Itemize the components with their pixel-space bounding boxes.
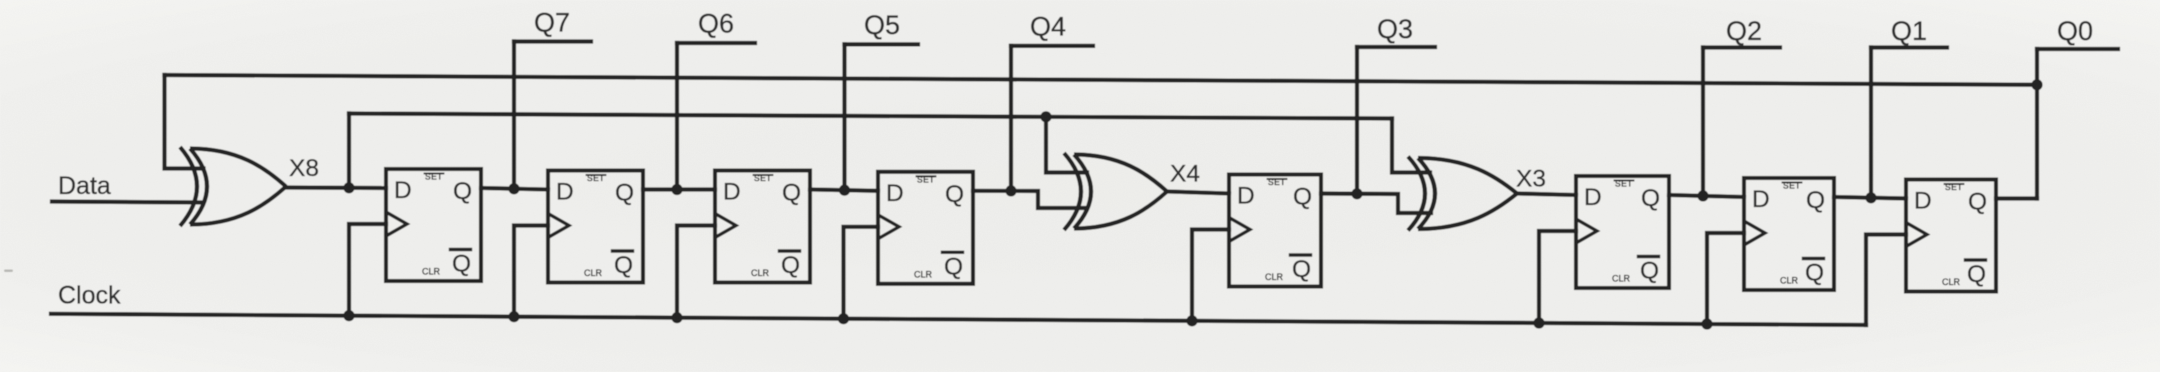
D flip-flop FF6 (Q2 stage)	[1576, 176, 1669, 288]
wire X8 output to FF1 D	[286, 185, 386, 190]
node Q6 tap junction	[671, 184, 682, 195]
net label Q1	[1891, 16, 1927, 46]
net label Q2	[1726, 16, 1762, 46]
wire Q6 output stub	[677, 41, 755, 45]
wire Q2 output stub	[1703, 45, 1780, 49]
label X3	[1516, 166, 1546, 193]
D flip-flop FF8 (Q0 stage)	[1906, 180, 1996, 292]
wire FF5 Q to X3 lower input	[1321, 194, 1431, 214]
wire clock feed to FF6 (Q2 stage)	[1539, 231, 1576, 323]
node Q5 tap junction	[839, 185, 850, 196]
D flip-flop FF3 (Q5 stage)	[715, 171, 810, 283]
wire Q0 output stub	[2037, 47, 2118, 51]
wire Q4 tap riser	[1009, 46, 1013, 191]
wire Data input	[52, 202, 203, 203]
xor gate X3	[1408, 157, 1517, 231]
wire Q2 tap riser	[1701, 48, 1705, 196]
node clock rail junction x=843.5	[838, 313, 849, 324]
node clock rail junction x=1539	[1533, 317, 1544, 328]
wire X3 top input from X8-feed rail end	[1392, 119, 1430, 173]
D flip-flop FF7 (Q1 stage)	[1744, 178, 1834, 290]
wire clock feed to FF7 (Q1 stage)	[1707, 233, 1744, 324]
wire Q0 feedback riser	[2035, 49, 2039, 199]
wire clock feed to FF5 (Q3 stage)	[1192, 230, 1229, 321]
wire riser X8 output to X8-feed rail	[347, 114, 351, 188]
net label Q5	[864, 10, 900, 40]
D flip-flop FF4 (Q4 stage)	[878, 172, 973, 284]
node X8-feed rail junction at X4	[1040, 111, 1051, 122]
node feedback rail junction at Q0	[2031, 79, 2042, 90]
wire Q7 output stub	[514, 39, 591, 43]
wire Q4 output stub	[1011, 44, 1093, 48]
wire Q1 output stub	[1871, 45, 1947, 49]
node Q4 tap junction	[1005, 185, 1016, 196]
net label Data	[58, 172, 111, 200]
node clock rail junction x=677	[671, 312, 682, 323]
node Q2 tap junction	[1697, 190, 1708, 201]
xor gate X8	[180, 147, 286, 226]
net label Q4	[1030, 12, 1066, 42]
wire clock feed to FF4 (Q4 stage)	[844, 227, 879, 319]
node clock rail junction x=349	[343, 310, 354, 321]
node Q1 tap junction	[1865, 192, 1876, 203]
wire clock feed to FF1 (Q7 stage)	[349, 224, 386, 316]
wire FF7 Q to FF8 D	[1834, 197, 1906, 199]
wire FF8 Q output	[1996, 196, 2037, 200]
wire Q6 tap riser	[675, 43, 679, 190]
wire feedback rail (Q0 to X8)	[165, 75, 2038, 85]
node clock rail junction x=514	[508, 311, 519, 322]
net label Q0	[2057, 16, 2093, 46]
wire FF6 Q to FF7 D	[1669, 195, 1744, 197]
node clock rail junction x=1707	[1701, 318, 1712, 329]
D flip-flop FF5 (Q3 stage)	[1229, 175, 1321, 287]
wire Q3 output stub	[1357, 45, 1435, 49]
node clock rail junction x=1192	[1186, 315, 1197, 326]
net label Clock	[58, 282, 121, 310]
label X8	[289, 155, 319, 182]
D flip-flop FF1 (Q7 stage)	[386, 169, 481, 281]
wire clock feed to FF2 (Q6 stage)	[514, 226, 548, 317]
wire Q5 output stub	[845, 42, 919, 46]
wire X3 output to FF6 D	[1517, 194, 1576, 196]
wire Q to next D stage 3	[810, 190, 878, 191]
node Q7 tap junction	[508, 183, 519, 194]
wire Q to next D stage 1	[481, 188, 548, 190]
node X8 output junction	[343, 182, 354, 193]
net label Q3	[1377, 14, 1413, 44]
net label Q6	[698, 9, 734, 39]
wire Q5 tap riser	[842, 44, 846, 190]
label X4	[1170, 161, 1200, 188]
net label Q7	[534, 8, 570, 38]
wire clock feed to FF8 (rail end)	[1866, 235, 1906, 325]
xor gate X4	[1064, 153, 1167, 230]
wire X8 top input (feedback from Q0)	[165, 75, 204, 169]
node Q3 tap junction	[1351, 188, 1362, 199]
wire Q7 tap riser	[512, 42, 516, 189]
wire X4 top input from X8-feed rail	[1046, 117, 1087, 173]
wire clock feed to FF3 (Q5 stage)	[677, 226, 715, 318]
wire X8-feed rail (to X4 and X3)	[349, 114, 1392, 119]
wire Q to next D stage 2	[643, 187, 715, 191]
wire Clock rail	[51, 314, 1866, 325]
wire X4 output to FF5 D	[1167, 192, 1229, 194]
wire Q3 tap riser	[1355, 47, 1359, 194]
wire FF4 Q to X4 lower input	[973, 191, 1086, 208]
wire Q1 tap riser	[1869, 48, 1873, 198]
D flip-flop FF2 (Q6 stage)	[548, 171, 643, 283]
